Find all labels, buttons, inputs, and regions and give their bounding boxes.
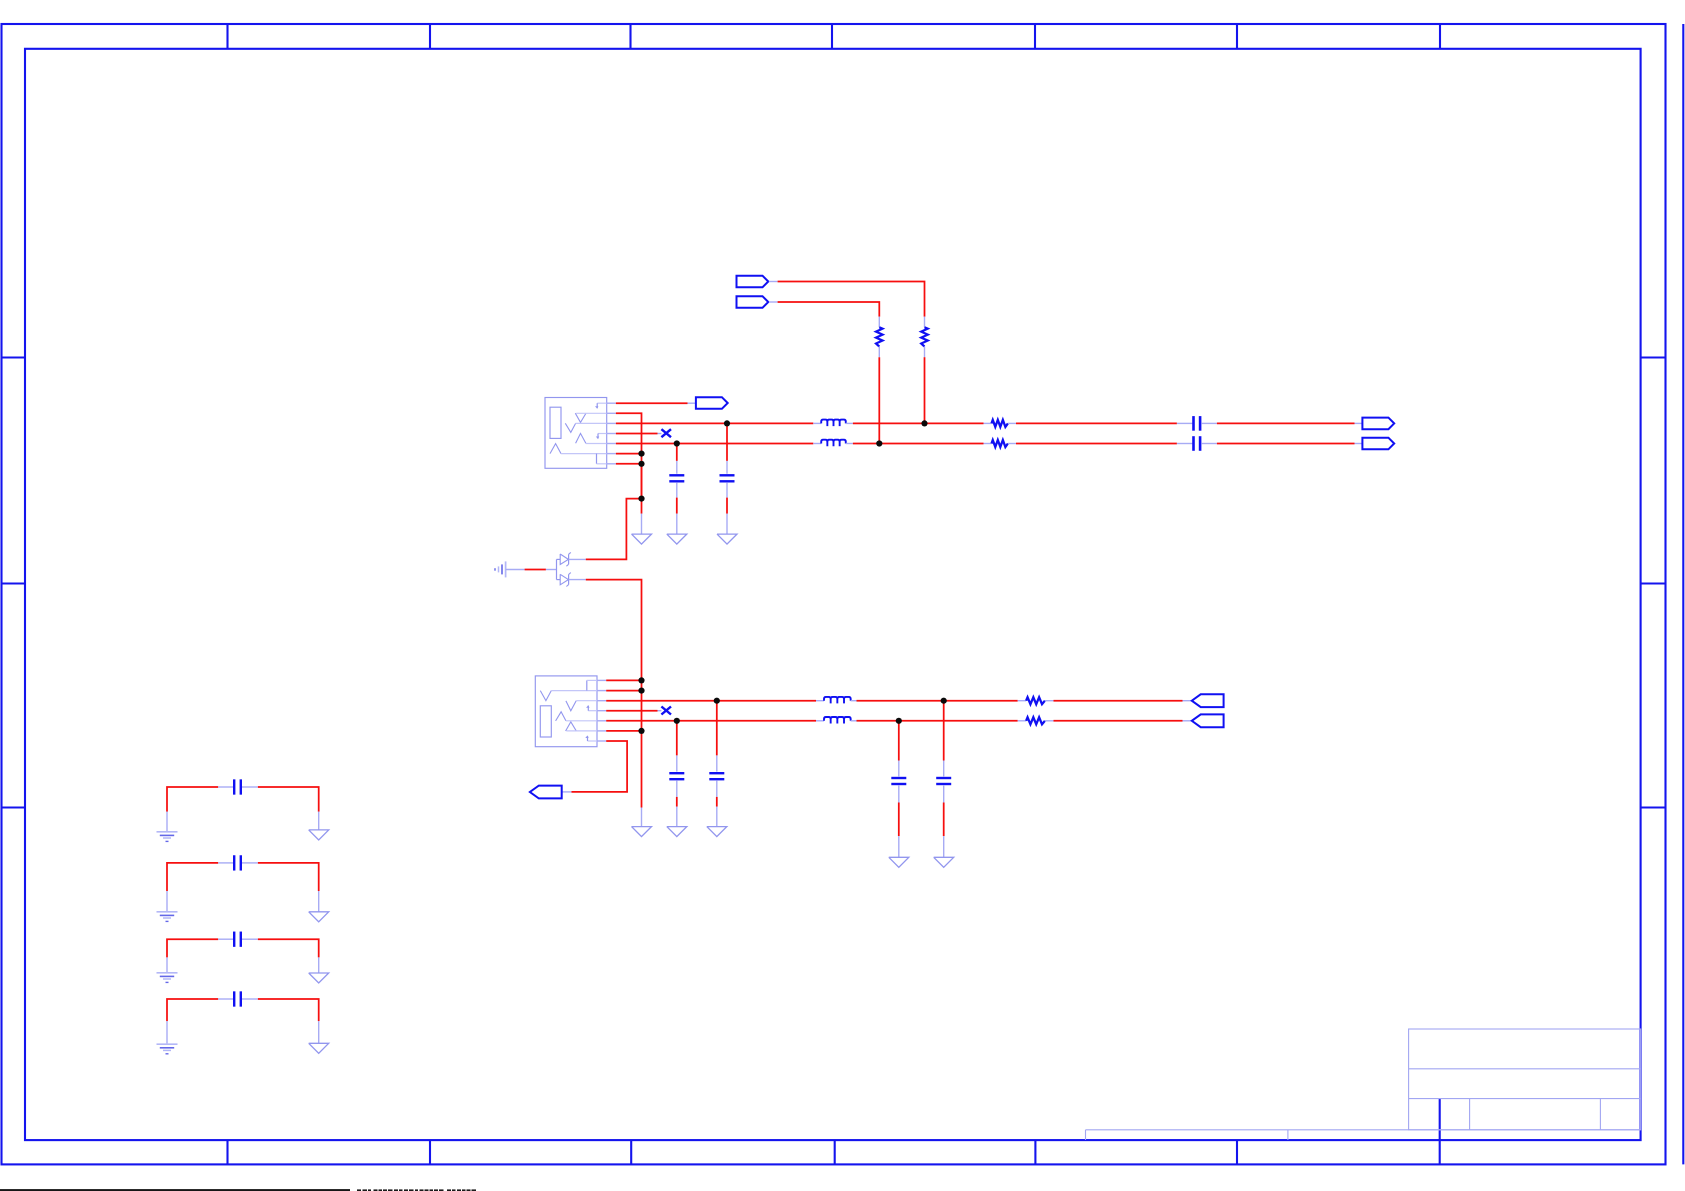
wire cell C10 left [167,863,218,891]
wire [898,721,900,761]
inductor L2 [821,440,846,447]
capacitor C10 [233,855,235,870]
transient diode D1 (dual TVS) [557,552,586,586]
ground [667,827,687,837]
capacitor C1 [669,474,684,476]
junction [638,451,644,457]
inductor L1 [821,420,846,427]
wire [242,862,258,864]
capacitor C5 (series) [1192,416,1195,431]
ground [934,857,954,867]
border zone ticks left [2,356,26,358]
inductor L4 [824,717,851,724]
wire [242,998,258,1000]
junction [638,461,644,467]
wire J1 pin4 [616,433,658,435]
wire [846,422,853,424]
wire [1201,422,1217,424]
resistor R4 [1026,717,1045,724]
wire port P5 to R1 [769,281,778,283]
earth ground [157,972,178,974]
ground [889,857,909,867]
wire cell C11 left [167,939,218,957]
junction [638,688,644,694]
ground [309,1043,329,1053]
ground [309,830,329,840]
resistor R5 [992,420,1008,427]
junction [714,698,720,704]
earth ground [157,831,178,833]
resistor R1 [921,327,928,346]
wire J2 pin4 [606,710,657,712]
wire port P6 to R2 [769,301,778,303]
junction [921,420,927,426]
wire bus lower [641,464,643,499]
wire [676,444,678,461]
wire J2 pin1 to port [572,741,628,792]
wire J1 pin1 to port [616,402,688,404]
earth ground (TVS) [495,561,525,577]
wire [1201,443,1217,445]
capacitor C12 [233,991,235,1006]
border zone ticks top [226,24,228,49]
junction [724,420,730,426]
resistor R2 [876,327,883,346]
wire [676,781,678,797]
no-connect X [661,707,671,715]
ground [632,534,652,544]
port P4 [1362,438,1394,450]
ground [309,973,329,983]
port P9 [1192,714,1224,727]
wire [1008,422,1016,424]
wire [676,721,678,756]
wire [242,938,258,940]
port P1 [696,397,728,409]
wire [242,786,258,788]
wire [878,347,880,358]
port P6 [737,296,769,308]
wire cell C12 left [167,999,218,1021]
wire [676,483,678,498]
wire J2 pin5 D+ line [606,700,816,702]
connector J2 (USB receptacle) [535,676,606,747]
wire [851,700,857,702]
footer rule [0,1189,350,1191]
ground [309,912,329,922]
wire J1 pin3 D+ line [616,422,813,424]
inductor L3 [824,697,851,704]
wire ground bus [641,454,643,514]
resistor R3 [1026,697,1045,704]
wire [1008,443,1016,445]
junction [674,440,680,446]
junction [896,718,902,724]
capacitor C4 [709,772,724,774]
port P5 [737,276,769,288]
ground [707,827,727,837]
capacitor C2 [720,474,735,476]
wire [898,786,900,803]
no-connect X [661,429,671,437]
capacitor C7 [891,777,906,779]
border zone ticks bottom [226,1140,228,1164]
capacitor C6 (series) [1192,436,1195,451]
wire [851,720,857,722]
wire J1 pin5 D- line [616,443,813,445]
earth ground [157,911,178,913]
wire TVS top to bus [586,499,642,560]
wire [846,443,853,445]
wire [943,786,945,803]
capacitor C9 [233,779,235,794]
wire J1 pin6 [616,453,642,455]
capacitor C3 [669,772,684,774]
ground [632,827,652,837]
wire [1045,700,1054,702]
wire J1 pin7 [616,463,642,465]
port P8 [1192,694,1224,707]
wire cell C9 left [167,787,218,812]
wire [924,347,926,358]
wire J2 pin2 [606,730,641,732]
junction [674,718,680,724]
wire TVS bottom to lower bus [586,580,642,808]
wire earth to TVS [525,569,546,571]
border zone ticks right [1641,356,1666,358]
wire [1045,720,1054,722]
port P3 [1362,418,1394,430]
sheet right edge line [1682,24,1684,1164]
wire J2 pin6 [606,690,641,692]
wire J2 pin7 [606,679,641,681]
junction [638,677,644,683]
junction [638,728,644,734]
wire [716,781,718,797]
wire [943,701,945,761]
wire J2 pin3 D- line [606,720,816,722]
wire [726,483,728,498]
port P7 [530,786,562,799]
ground [717,534,737,544]
wire [726,423,728,461]
capacitor C8 [936,777,951,779]
capacitor C11 [233,932,235,947]
wire [716,701,718,756]
earth ground [157,1043,178,1045]
junction [876,440,882,446]
connector J1 (USB receptacle) [545,398,616,469]
footer text fragments [357,1189,476,1191]
resistor R6 [992,440,1008,447]
junction [941,698,947,704]
junction [638,496,644,502]
title block [1086,1029,1641,1140]
wire J1 pin2 to ground bus [616,413,642,453]
ground [667,534,687,544]
